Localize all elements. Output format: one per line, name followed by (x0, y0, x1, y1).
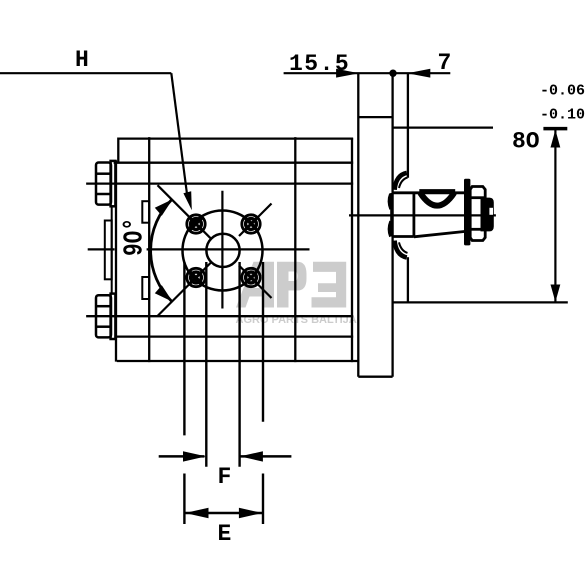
90 degree dimension arc (151, 200, 172, 302)
dimension E arrowhead right (239, 508, 263, 518)
arrowhead 7 (407, 69, 430, 78)
rear cover plate (105, 221, 112, 280)
shaft shoulder inner arc top (399, 178, 408, 189)
shaft base left edge (390, 193, 393, 237)
body right edge (351, 139, 353, 361)
extension line F left (205, 262, 207, 467)
svg-text:15.5: 15.5 (289, 51, 350, 77)
pilot hub face lower (407, 257, 409, 302)
dimension 80 arrowhead up (551, 130, 561, 148)
arrowhead 15.5 (336, 69, 359, 78)
dimension H leader (171, 73, 187, 194)
watermark AP3 logo letter A (236, 262, 274, 308)
mounting flange right face (391, 73, 393, 377)
shaft shoulder hook top (389, 194, 391, 209)
dimension H line (0, 72, 171, 74)
dimension dot terminator (389, 70, 396, 77)
shaft base right edge (412, 193, 415, 237)
pilot hub bottom edge and 80 leader (393, 301, 568, 303)
arc arrowhead top (155, 199, 173, 216)
body bottom edge (118, 360, 357, 362)
dimension 80 arrowhead down (551, 285, 561, 303)
dimension F line right (240, 455, 292, 458)
dimension F arrowhead right (240, 451, 263, 461)
dimension 80 top tick (543, 127, 567, 131)
assembly bolt top-right (242, 215, 260, 233)
shaft base bottom edge (392, 235, 414, 238)
svg-text:H: H (75, 47, 89, 73)
shaft shoulder inner arc bottom (399, 242, 408, 253)
dimension H arrowhead (183, 191, 191, 210)
threaded shaft stub (481, 198, 494, 232)
port slot lower (142, 277, 149, 299)
arc arrowhead bottom (155, 285, 173, 302)
rear cover section line (148, 138, 150, 361)
extension line E right lower (262, 474, 264, 525)
woodruff key flat top (419, 189, 455, 192)
svg-text:E: E (218, 521, 232, 547)
lower bolt centerline joint (87, 315, 352, 317)
mounting flange left face (357, 73, 359, 377)
rear cover edge line (111, 207, 113, 294)
tapered shaft bottom edge (414, 232, 464, 237)
body top joint line (115, 162, 352, 164)
dimension E line (186, 512, 263, 515)
assembly bolt bottom-right (242, 268, 260, 286)
watermark AP3 logo letter P (277, 262, 307, 308)
shaft nut (470, 187, 485, 241)
extension line E left upper (183, 262, 185, 435)
port slot upper (142, 201, 149, 223)
mounting flange bottom edge (358, 376, 392, 378)
pilot hub top edge and 80 leader (393, 126, 493, 128)
svg-text:-0.10: -0.10 (540, 107, 585, 124)
shaft base top edge (392, 191, 465, 194)
horizontal centerline of bolt pattern (147, 248, 310, 250)
woodruff key seat arc (420, 193, 454, 206)
svg-text:F: F (218, 464, 232, 490)
pilot hub face upper / extension line 7 (407, 73, 409, 178)
watermark AP3 logo letter 3 (312, 262, 347, 308)
svg-text:7: 7 (438, 50, 452, 76)
dimension line 15.5 and 7 (284, 72, 451, 74)
svg-text:8O: 8O (512, 129, 540, 155)
diagonal axis through top-right bolt (239, 204, 272, 237)
hex bolt head bottom (96, 294, 115, 339)
upper bolt centerline joint (87, 182, 352, 184)
body top cap edge (118, 139, 352, 162)
diagonal axis through bottom-right bolt (239, 266, 272, 299)
dimension F line left (159, 455, 205, 458)
gear housing circle (183, 211, 263, 291)
body bottom joint line (116, 335, 352, 337)
extension line E right upper (262, 262, 264, 422)
shaft shoulder crescent bottom (395, 241, 407, 258)
assembly bolt bottom-left (187, 268, 205, 286)
shaft shoulder crescent top (395, 173, 407, 190)
front cover section line (294, 138, 296, 361)
shaft washer (464, 179, 470, 246)
diagonal axis through bottom-left bolt (158, 263, 212, 317)
extension line E left lower (183, 474, 185, 525)
extension line F right (238, 262, 240, 467)
shaft centerline (349, 214, 496, 216)
dimension F arrowhead left (183, 451, 206, 461)
threaded stub notch (489, 208, 493, 215)
hex bolt head top (96, 161, 115, 206)
assembly bolt top-left (187, 215, 205, 233)
body left edge (115, 162, 117, 361)
shaft bore circle (206, 234, 239, 267)
horizontal centerline left stub (88, 248, 115, 250)
vertical centerline of bolt pattern (221, 191, 223, 309)
mounting flange top edge (358, 116, 392, 118)
dimension 80 line (554, 130, 556, 302)
dimension E arrowhead left (185, 508, 209, 518)
shaft shoulder hook bottom (389, 221, 391, 236)
svg-text:-0.06: -0.06 (540, 83, 585, 100)
diagonal axis through top-left bolt (158, 185, 212, 239)
